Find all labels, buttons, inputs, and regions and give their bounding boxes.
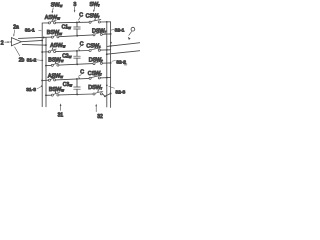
- junction row3 top at R1: [106, 77, 108, 79]
- junction cap C3w top node: [76, 78, 78, 80]
- output terminal circle: [131, 27, 135, 31]
- wire row3 top: ASWw to capacitor node: [56, 78, 90, 80]
- junction row3 bottom at R2: [110, 93, 112, 95]
- svg-text:31-2: 31-2: [27, 58, 37, 64]
- wire row3 top: bus L1 to switch ASWw: [42, 79, 48, 81]
- op-amp buffer 2a/2b: [11, 38, 21, 46]
- junction row1 bottom at R2: [110, 33, 112, 35]
- wire row1 top: bus L1 to switch ASWw: [42, 22, 48, 24]
- label CSWr row 1: [86, 13, 101, 19]
- junction row2 bottom at R2: [110, 62, 112, 64]
- switch CSWr row 1: [89, 17, 101, 23]
- label 31-3: [26, 87, 41, 93]
- label 3: [73, 2, 76, 8]
- label ASWw row 3: [48, 73, 63, 79]
- junction row3 bottom sag: [104, 95, 106, 97]
- junction mark on bus R2 top: [110, 42, 112, 44]
- label 2a: [13, 24, 19, 30]
- svg-text:ASWw: ASWw: [45, 15, 60, 21]
- wire input to amp: [10, 41, 11, 43]
- wire output B (bottom) to right edge: [107, 51, 140, 55]
- junction R1 extra row3 tap: [106, 84, 108, 86]
- svg-text:DSWr: DSWr: [88, 85, 103, 91]
- leader 2a: [13, 30, 15, 37]
- wire row3 top: CSWr to bus R2: [100, 76, 110, 79]
- junction row1 bottom near L1/L2: [43, 37, 45, 39]
- svg-text:ASWw: ASWw: [50, 43, 65, 49]
- label C pointer row 3: [78, 70, 85, 79]
- wire row1 top: CSWr to bus R2: [100, 21, 110, 23]
- leader 2b: [15, 47, 20, 56]
- wire row3 bottom: left stub to switch BSWw: [46, 94, 51, 96]
- svg-text:2b: 2b: [19, 57, 25, 63]
- label 31 write switch group: [58, 113, 64, 119]
- wire row2 bottom: BSWw to capacitor bottom node: [59, 64, 93, 66]
- svg-text:C1w: C1w: [62, 24, 71, 30]
- label CSWr row 3: [88, 71, 103, 77]
- label 32 read switch group: [97, 114, 103, 120]
- svg-text:32-1: 32-1: [115, 28, 125, 34]
- junction 31-3 pointer tip: [41, 85, 43, 87]
- svg-text:DSWr: DSWr: [92, 28, 107, 34]
- junction amp A on L1: [41, 39, 43, 41]
- label DSWr row 1: [92, 28, 107, 34]
- junction cap C1w bottom node: [76, 35, 78, 37]
- label DSWr row 2: [89, 57, 104, 63]
- label C pointer row 1: [78, 12, 84, 22]
- junction row1 top at R1: [106, 21, 108, 23]
- label 32-1: [111, 28, 125, 34]
- wire output A (top) to right edge: [107, 43, 140, 47]
- svg-text:BSWw: BSWw: [47, 30, 62, 36]
- wire row1 bottom: DSWr to bus R2: [102, 33, 110, 35]
- label ASWw row 2: [50, 43, 65, 49]
- svg-text:32-3: 32-3: [115, 89, 125, 95]
- junction row3 bottom at L2: [45, 94, 47, 96]
- input terminal 2 label: [1, 41, 4, 47]
- label BSWw row 1: [47, 30, 62, 36]
- switch DSWr row 3: [93, 89, 103, 95]
- capacitor C1w: [74, 22, 81, 35]
- svg-text:32-2: 32-2: [116, 59, 126, 65]
- svg-text:31-3: 31-3: [26, 87, 36, 93]
- switch BSWw row 1: [51, 32, 59, 38]
- svg-text:DSWr: DSWr: [89, 57, 104, 63]
- wire row1 bottom: BSWw to capacitor bottom node: [59, 35, 93, 37]
- value label C1w: [62, 24, 71, 30]
- wire row1 bottom: left stub to switch BSWw: [18, 37, 51, 38]
- svg-text:31: 31: [58, 113, 64, 119]
- wire amp output B to bus L2: [22, 43, 46, 46]
- arrow 3 down: [74, 7, 76, 12]
- wire row3 bottom: DSWr to bus R2: [102, 94, 110, 97]
- label C pointer row 2: [78, 41, 84, 50]
- junction cap C2w top node: [76, 50, 78, 52]
- wire row1 top: ASWw to capacitor node: [56, 21, 90, 24]
- label 32-3: [109, 86, 126, 95]
- junction amp B on L2: [45, 44, 47, 46]
- label BSWw row 2: [48, 58, 63, 64]
- arrow SWr to CSWr switch: [93, 7, 95, 12]
- wire amp output A to bus L1: [22, 40, 43, 41]
- svg-text:ASWw: ASWw: [48, 73, 63, 79]
- capacitor C3w: [74, 79, 81, 95]
- label CSWr row 2: [86, 43, 101, 49]
- svg-text:SWw: SWw: [51, 2, 63, 8]
- bus L1 vertical: [41, 23, 43, 107]
- junction 31-2 pointer tip: [41, 59, 43, 61]
- arrow 31 up: [60, 103, 62, 110]
- junction cap C2w bottom node: [76, 63, 78, 65]
- label 31-2: [27, 58, 42, 64]
- label ASWw row 1: [45, 15, 60, 21]
- arrow SWw to ASWw switch: [51, 8, 53, 14]
- junction row2 top at R1: [106, 49, 108, 51]
- label SWr: [90, 2, 101, 8]
- label 32-2: [112, 59, 126, 65]
- switch ASWw row 1: [48, 18, 56, 24]
- junction cap C3w bottom node: [76, 93, 78, 95]
- arrow terminal to output wire: [127, 31, 132, 40]
- switch BSWw row 2: [51, 60, 59, 66]
- switch BSWw row 3: [51, 90, 59, 96]
- junction output A at R2: [110, 45, 112, 47]
- svg-text:32: 32: [97, 114, 103, 120]
- svg-text:31-1: 31-1: [25, 28, 35, 34]
- svg-text:2a: 2a: [13, 24, 19, 30]
- svg-text:2: 2: [1, 41, 4, 47]
- switch ASWw row 2: [48, 47, 56, 53]
- junction cap C1w top node: [76, 21, 78, 23]
- wire row2 top: CSWr to bus R2: [100, 49, 110, 51]
- junction row3 top at L1: [41, 80, 43, 82]
- arrow 32 up: [95, 104, 97, 112]
- label 2b: [19, 57, 25, 63]
- svg-text:C2w: C2w: [62, 54, 71, 60]
- svg-text:CSWr: CSWr: [86, 43, 101, 49]
- value label C3w: [63, 82, 72, 88]
- switch CSWr row 2: [89, 45, 101, 51]
- svg-text:CSWr: CSWr: [88, 71, 103, 77]
- svg-text:CSWr: CSWr: [86, 13, 101, 19]
- switch DSWr row 1: [93, 30, 103, 36]
- bus R1 vertical: [106, 23, 108, 107]
- junction row2 top at L1: [41, 51, 43, 53]
- wire row2 bottom: left stub to switch BSWw: [46, 64, 51, 66]
- input arrow: [5, 41, 10, 43]
- capacitor C2w: [74, 51, 81, 64]
- wire row3 bottom: BSWw to capacitor bottom node: [59, 93, 93, 96]
- mark under 32-2: [124, 64, 127, 66]
- label 31-1: [25, 28, 41, 34]
- wire row2 top: ASWw to capacitor node: [56, 51, 90, 52]
- svg-text:C3w: C3w: [63, 82, 72, 88]
- switch CSWr row 3: [89, 73, 101, 79]
- label BSWw row 3: [49, 87, 64, 93]
- bus L2 vertical: [45, 38, 47, 107]
- switch DSWr row 2: [93, 58, 103, 64]
- switch ASWw row 3: [48, 75, 56, 81]
- label DSWr row 3: [88, 85, 103, 91]
- wire row2 top: bus L1 to switch ASWw: [42, 51, 48, 53]
- junction row2 bottom at L2: [45, 65, 47, 67]
- junction output B at R1: [106, 53, 108, 55]
- value label C2w: [62, 54, 71, 60]
- bus R2 vertical: [110, 22, 112, 108]
- wire row2 bottom: DSWr to bus R2: [102, 62, 110, 64]
- label SWw: [51, 2, 63, 8]
